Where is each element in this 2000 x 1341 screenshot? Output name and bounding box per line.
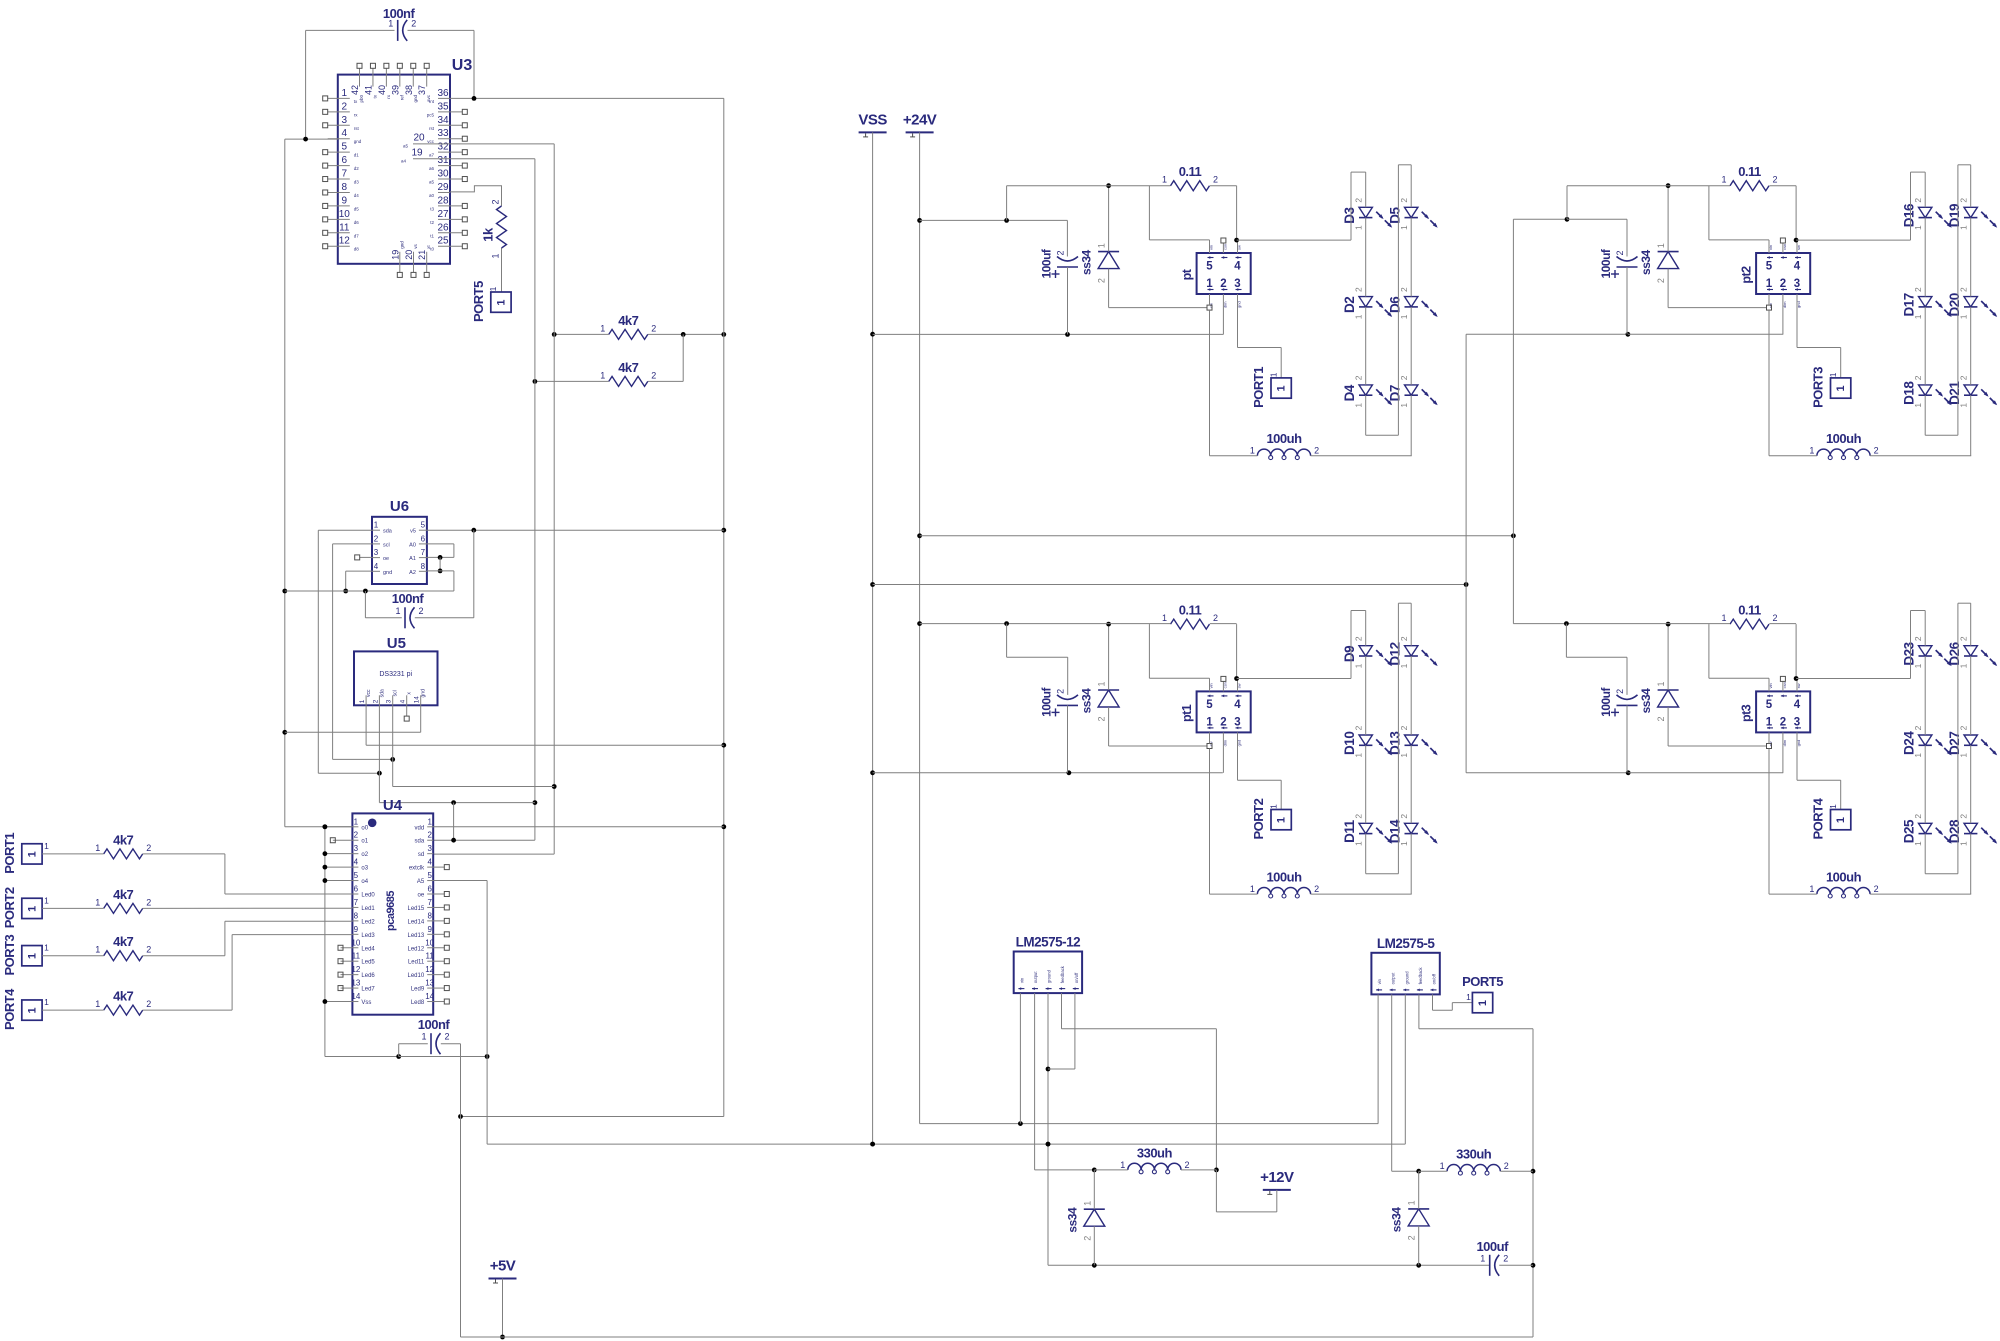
wire pt3 pin3 to PORT4 bbox=[1797, 732, 1841, 809]
svg-text:1k: 1k bbox=[481, 227, 496, 242]
svg-text:9: 9 bbox=[354, 925, 359, 934]
svg-text:1: 1 bbox=[95, 897, 100, 907]
svg-text:1: 1 bbox=[488, 286, 498, 291]
svg-text:2: 2 bbox=[1213, 613, 1218, 623]
svg-text:8: 8 bbox=[354, 911, 359, 920]
wire LM2575-5 feedback to +5 output node bbox=[1419, 994, 1536, 1337]
svg-text:1: 1 bbox=[1269, 372, 1279, 377]
wire ss34-5 connections bbox=[1418, 1171, 1420, 1265]
svg-text:gnd: gnd bbox=[354, 139, 362, 144]
IC pt1 (LED driver) bbox=[1180, 682, 1251, 746]
svg-text:d5: d5 bbox=[354, 206, 360, 211]
svg-text:330uh: 330uh bbox=[1456, 1147, 1492, 1162]
svg-text:DS3231 pi: DS3231 pi bbox=[379, 671, 412, 678]
svg-text:2: 2 bbox=[1913, 725, 1923, 730]
svg-text:1: 1 bbox=[1120, 1160, 1125, 1170]
svg-text:ss34: ss34 bbox=[1639, 249, 1653, 275]
wire pt pin2 to VSS line bbox=[1222, 294, 1224, 334]
svg-text:4: 4 bbox=[1794, 261, 1801, 273]
IC U5 (DS3231 RTC) bbox=[354, 635, 438, 705]
wire pt1 top pin stubs bbox=[1210, 676, 1238, 691]
wire 4k7 pullup B net bbox=[533, 334, 684, 383]
wire sda rail (A4) down to U4 sda bbox=[433, 159, 537, 840]
wire U3 pin36 vdd to +5 rail bbox=[450, 96, 724, 101]
svg-text:2: 2 bbox=[1656, 278, 1666, 283]
svg-text:2: 2 bbox=[1399, 636, 1409, 641]
LED D5 bbox=[1388, 198, 1438, 230]
svg-text:14: 14 bbox=[351, 992, 360, 1001]
svg-text:2: 2 bbox=[1913, 814, 1923, 819]
svg-text:+12V: +12V bbox=[1260, 1169, 1294, 1186]
svg-text:100uh: 100uh bbox=[1826, 431, 1862, 446]
svg-text:1: 1 bbox=[1399, 225, 1409, 230]
svg-text:3: 3 bbox=[342, 115, 348, 126]
svg-text:A0: A0 bbox=[409, 542, 416, 548]
svg-text:32: 32 bbox=[437, 142, 449, 153]
svg-text:1: 1 bbox=[1206, 278, 1213, 290]
wire U6 sda to U5 sda bbox=[318, 530, 382, 775]
svg-text:330uh: 330uh bbox=[1137, 1145, 1173, 1160]
svg-text:scl: scl bbox=[383, 542, 390, 548]
svg-text:1: 1 bbox=[1097, 681, 1107, 686]
svg-text:t1: t1 bbox=[430, 233, 434, 238]
svg-text:1: 1 bbox=[44, 997, 49, 1007]
svg-text:Led9: Led9 bbox=[411, 987, 425, 993]
svg-text:v5: v5 bbox=[410, 529, 416, 535]
svg-text:D18: D18 bbox=[1902, 381, 1917, 405]
wire pt pin5 vin jog bbox=[1149, 186, 1209, 240]
svg-text:Led2: Led2 bbox=[361, 919, 375, 925]
pin U4 Led6 unconnected square bbox=[338, 972, 352, 977]
svg-text:5: 5 bbox=[427, 871, 432, 880]
LED D28 bbox=[1947, 814, 1997, 846]
svg-text:2: 2 bbox=[1056, 689, 1066, 694]
svg-text:6: 6 bbox=[354, 885, 359, 894]
svg-text:4k7: 4k7 bbox=[113, 989, 133, 1004]
svg-text:5: 5 bbox=[1766, 261, 1773, 273]
svg-text:2: 2 bbox=[1354, 375, 1364, 380]
svg-text:PORT5: PORT5 bbox=[1462, 974, 1503, 989]
svg-text:1: 1 bbox=[44, 895, 49, 905]
svg-text:2: 2 bbox=[1874, 446, 1879, 456]
port PORT3 bbox=[2, 934, 49, 975]
svg-text:1: 1 bbox=[1466, 992, 1471, 1002]
pin U4 Led11 unconnected square bbox=[433, 959, 449, 964]
capacitor 100uf (pt2 input) bbox=[1599, 248, 1638, 278]
svg-text:Led12: Led12 bbox=[408, 946, 425, 952]
svg-text:2: 2 bbox=[1220, 716, 1226, 728]
svg-text:D19: D19 bbox=[1947, 204, 1962, 227]
svg-text:10: 10 bbox=[351, 938, 360, 947]
svg-text:1: 1 bbox=[495, 299, 507, 305]
svg-text:D16: D16 bbox=[1902, 203, 1917, 227]
wire pt3 pin2 to VSS line bbox=[1782, 732, 1784, 772]
svg-text:ss34: ss34 bbox=[1639, 688, 1653, 714]
svg-text:ground: ground bbox=[1047, 969, 1052, 983]
svg-text:o0: o0 bbox=[361, 825, 368, 831]
svg-text:oe: oe bbox=[383, 556, 389, 562]
resistor 4k7 (PORT4 series) bbox=[95, 989, 151, 1016]
LED D20 bbox=[1947, 287, 1997, 319]
svg-text:6: 6 bbox=[421, 534, 426, 543]
wire pt top pin stubs bbox=[1210, 238, 1238, 253]
pin U4 Led12 unconnected square bbox=[433, 945, 449, 950]
svg-text:1: 1 bbox=[1399, 403, 1409, 408]
svg-text:A1: A1 bbox=[409, 556, 416, 562]
svg-text:2: 2 bbox=[1184, 1160, 1189, 1170]
wire pt pin3 to PORT1 bbox=[1238, 294, 1282, 378]
svg-text:1: 1 bbox=[26, 906, 38, 912]
svg-text:a5: a5 bbox=[403, 144, 409, 149]
IC U4 (pca9685 LED driver) bbox=[351, 797, 434, 1015]
wire PORT1 to U4 Led0 bbox=[42, 854, 352, 894]
wire pt2 pin1/diode/inductor node bbox=[1668, 269, 1771, 456]
svg-text:4k7: 4k7 bbox=[113, 832, 133, 847]
svg-text:D11: D11 bbox=[1342, 819, 1357, 843]
svg-text:1: 1 bbox=[1721, 175, 1726, 185]
svg-text:pca9685: pca9685 bbox=[385, 891, 397, 931]
svg-text:t2: t2 bbox=[430, 220, 434, 225]
svg-text:0.11: 0.11 bbox=[1179, 603, 1202, 618]
svg-text:output: output bbox=[1033, 971, 1038, 983]
svg-text:1: 1 bbox=[1407, 1200, 1417, 1205]
svg-text:1: 1 bbox=[342, 88, 348, 99]
wire pt3 block top/cap feed bbox=[1513, 621, 1796, 773]
svg-text:14: 14 bbox=[414, 696, 421, 704]
svg-text:1: 1 bbox=[1656, 243, 1666, 248]
svg-text:19: 19 bbox=[411, 148, 423, 159]
svg-text:d6: d6 bbox=[354, 220, 360, 225]
svg-text:2: 2 bbox=[1399, 725, 1409, 730]
svg-text:Led5: Led5 bbox=[361, 960, 375, 966]
svg-text:1: 1 bbox=[1480, 1253, 1485, 1263]
LED D7 bbox=[1388, 375, 1438, 407]
diode ss34 (LM2575-5) bbox=[1390, 1200, 1430, 1240]
wire 100uf to +5 node bbox=[1499, 1264, 1533, 1266]
wire pt2 block top/cap feed bbox=[1567, 186, 1796, 335]
wire pt3 sw node to LED feed bbox=[1794, 624, 1911, 681]
svg-text:d2: d2 bbox=[354, 166, 360, 171]
svg-text:2: 2 bbox=[342, 101, 348, 112]
svg-text:extclk: extclk bbox=[409, 866, 425, 872]
pin U4 Led13 unconnected square bbox=[433, 932, 449, 937]
svg-text:1: 1 bbox=[1828, 804, 1838, 809]
svg-text:20: 20 bbox=[404, 250, 414, 260]
svg-text:1: 1 bbox=[1440, 1161, 1445, 1171]
LED D18 bbox=[1902, 375, 1952, 407]
svg-text:2: 2 bbox=[146, 897, 151, 907]
wire +24V rail vertical and bottom bus bbox=[917, 132, 1378, 1126]
svg-text:13: 13 bbox=[351, 979, 360, 988]
svg-text:9: 9 bbox=[342, 195, 348, 206]
svg-text:1: 1 bbox=[1959, 841, 1969, 846]
wire LM2575-5 ground + VSS bus bbox=[487, 994, 1405, 1146]
capacitor 100uf (pt3 input) bbox=[1599, 686, 1638, 716]
svg-text:1: 1 bbox=[1959, 314, 1969, 319]
svg-text:Led15: Led15 bbox=[408, 906, 425, 912]
svg-text:1: 1 bbox=[491, 253, 501, 258]
svg-text:1: 1 bbox=[1399, 663, 1409, 668]
svg-text:d1: d1 bbox=[354, 153, 360, 158]
svg-text:vin: vin bbox=[1377, 978, 1382, 984]
svg-text:5: 5 bbox=[354, 871, 359, 880]
svg-text:1: 1 bbox=[1206, 716, 1213, 728]
svg-text:vdd: vdd bbox=[415, 825, 425, 831]
svg-text:1: 1 bbox=[1809, 446, 1814, 456]
svg-text:pt: pt bbox=[1180, 268, 1194, 280]
svg-text:D13: D13 bbox=[1388, 731, 1403, 755]
LED D11 bbox=[1342, 814, 1392, 846]
svg-text:pc5: pc5 bbox=[427, 112, 435, 117]
capacitor 100uf (output filter) bbox=[1476, 1239, 1509, 1276]
svg-text:1: 1 bbox=[1250, 884, 1255, 894]
svg-text:33: 33 bbox=[437, 128, 449, 139]
svg-text:5: 5 bbox=[342, 142, 348, 153]
svg-text:U6: U6 bbox=[390, 498, 409, 515]
svg-text:1: 1 bbox=[374, 521, 379, 530]
port PORT2 bbox=[2, 887, 49, 928]
svg-text:1: 1 bbox=[1913, 403, 1923, 408]
svg-text:gnd: gnd bbox=[399, 241, 404, 249]
svg-text:D20: D20 bbox=[1947, 293, 1962, 316]
resistor 0.11 (pt1 sense) bbox=[1162, 603, 1218, 630]
svg-text:25: 25 bbox=[437, 236, 449, 247]
wire 330uh-5 leads bbox=[1419, 1170, 1533, 1172]
port PORT3 bbox=[1811, 367, 1851, 408]
wire pt3 LED string bbox=[1911, 603, 1971, 894]
svg-text:PORT1: PORT1 bbox=[2, 833, 17, 874]
svg-text:0.11: 0.11 bbox=[1738, 603, 1761, 618]
svg-text:2: 2 bbox=[1780, 716, 1786, 728]
LED D9 bbox=[1342, 636, 1392, 668]
svg-text:3: 3 bbox=[1234, 716, 1240, 728]
svg-text:2: 2 bbox=[1874, 884, 1879, 894]
svg-text:36: 36 bbox=[437, 88, 449, 99]
svg-text:t3: t3 bbox=[430, 206, 434, 211]
svg-text:D14: D14 bbox=[1388, 819, 1403, 843]
svg-text:37: 37 bbox=[417, 85, 427, 95]
wire U5 sda to sda rail bbox=[379, 705, 535, 842]
svg-text:sda: sda bbox=[383, 529, 393, 535]
svg-text:1: 1 bbox=[95, 945, 100, 955]
wire LM2575-12 ground/onoff + VSS diode bus bbox=[1046, 993, 1489, 1268]
svg-text:10: 10 bbox=[339, 209, 351, 220]
inductor 100uh (pt1) bbox=[1250, 870, 1319, 898]
wire pt1 pin2 to VSS line bbox=[1222, 732, 1224, 772]
svg-text:PORT3: PORT3 bbox=[2, 934, 17, 975]
svg-text:1: 1 bbox=[1269, 804, 1279, 809]
svg-text:1: 1 bbox=[1082, 1201, 1092, 1206]
svg-text:LM2575-12: LM2575-12 bbox=[1016, 935, 1081, 950]
svg-text:2: 2 bbox=[1082, 1236, 1092, 1241]
svg-text:Led13: Led13 bbox=[408, 933, 425, 939]
wire U6 gnd to gnd bus bbox=[285, 571, 454, 593]
svg-text:1: 1 bbox=[1913, 663, 1923, 668]
pin U4 Led14 unconnected square bbox=[433, 918, 449, 923]
svg-text:11: 11 bbox=[426, 952, 435, 961]
wire pt diode cathode to top line bbox=[1106, 183, 1111, 251]
svg-text:1: 1 bbox=[1162, 613, 1167, 623]
inductor 330uh (LM2575-5) bbox=[1440, 1147, 1509, 1175]
svg-text:20: 20 bbox=[413, 133, 425, 144]
svg-text:2: 2 bbox=[1780, 278, 1786, 290]
svg-text:2: 2 bbox=[1772, 175, 1777, 185]
svg-text:42: 42 bbox=[350, 85, 360, 95]
svg-text:2: 2 bbox=[1399, 375, 1409, 380]
LED D13 bbox=[1388, 725, 1438, 757]
svg-text:A2: A2 bbox=[409, 570, 416, 576]
IC LM2575-12 (12V regulator) bbox=[1014, 935, 1082, 994]
svg-text:1: 1 bbox=[1766, 278, 1773, 290]
svg-text:1: 1 bbox=[1913, 225, 1923, 230]
svg-text:2: 2 bbox=[1913, 636, 1923, 641]
svg-text:1: 1 bbox=[1354, 403, 1364, 408]
svg-text:2: 2 bbox=[1354, 814, 1364, 819]
LED D16 bbox=[1902, 198, 1952, 230]
LED D26 bbox=[1947, 636, 1997, 668]
svg-text:ss34: ss34 bbox=[1390, 1207, 1404, 1233]
svg-text:Led8: Led8 bbox=[411, 1000, 425, 1006]
svg-text:6: 6 bbox=[427, 885, 432, 894]
svg-text:Led11: Led11 bbox=[408, 960, 425, 966]
port PORT4 bbox=[1811, 797, 1851, 839]
svg-text:2: 2 bbox=[1314, 884, 1319, 894]
svg-text:2: 2 bbox=[491, 199, 501, 204]
pin U4 Led5 unconnected square bbox=[338, 959, 352, 964]
port PORT1 bbox=[2, 833, 49, 874]
svg-text:2: 2 bbox=[1656, 716, 1666, 721]
svg-text:1: 1 bbox=[95, 999, 100, 1009]
resistor 4k7 (scl pullup) bbox=[600, 313, 656, 340]
LED D21 bbox=[1947, 375, 1997, 407]
wire pt1 inductor leads bbox=[1210, 893, 1412, 895]
svg-text:D28: D28 bbox=[1947, 819, 1962, 843]
svg-text:D4: D4 bbox=[1342, 384, 1357, 401]
svg-text:2: 2 bbox=[1959, 725, 1969, 730]
wire pt2 sw node to LED feed bbox=[1794, 186, 1911, 243]
svg-text:1: 1 bbox=[1399, 753, 1409, 758]
svg-text:1: 1 bbox=[1354, 225, 1364, 230]
svg-text:4: 4 bbox=[354, 858, 359, 867]
svg-text:3: 3 bbox=[386, 699, 393, 703]
svg-text:2: 2 bbox=[1213, 175, 1218, 185]
svg-text:1: 1 bbox=[1656, 681, 1666, 686]
svg-text:d4: d4 bbox=[354, 193, 360, 198]
wire pt1 LED string bbox=[1351, 603, 1411, 894]
wire 100nf U4 cap to gnd bus and +5 bus bbox=[399, 1044, 461, 1337]
svg-text:1: 1 bbox=[395, 606, 400, 616]
LED D6 bbox=[1388, 287, 1438, 319]
svg-text:D21: D21 bbox=[1947, 381, 1962, 405]
svg-text:2: 2 bbox=[1220, 278, 1226, 290]
svg-text:4: 4 bbox=[400, 699, 407, 703]
wire U6 v5 to +5 rail bbox=[427, 528, 724, 533]
inductor 330uh (LM2575-12) bbox=[1120, 1145, 1189, 1173]
svg-text:0.11: 0.11 bbox=[1738, 164, 1761, 179]
svg-text:2: 2 bbox=[372, 699, 379, 703]
wire +5V bus bottom bbox=[461, 1279, 1534, 1340]
resistor 4k7 (sda pullup) bbox=[600, 360, 656, 387]
svg-text:U4: U4 bbox=[383, 797, 403, 814]
svg-text:100nf: 100nf bbox=[383, 6, 416, 21]
svg-text:2: 2 bbox=[1959, 636, 1969, 641]
svg-text:2: 2 bbox=[1399, 287, 1409, 292]
svg-text:11: 11 bbox=[352, 952, 361, 961]
svg-text:+5V: +5V bbox=[490, 1258, 516, 1275]
svg-text:+24V: +24V bbox=[903, 111, 937, 128]
svg-text:x: x bbox=[407, 692, 413, 695]
capacitor 100nf (U6 decoupling) bbox=[392, 591, 425, 628]
IC U3 (44-pin MCU) bbox=[323, 57, 473, 277]
pin U4 Led15 unconnected square bbox=[433, 905, 449, 910]
svg-text:feedback: feedback bbox=[1060, 965, 1065, 983]
svg-text:8: 8 bbox=[427, 911, 432, 920]
svg-text:oe: oe bbox=[418, 893, 425, 899]
svg-text:3: 3 bbox=[1794, 278, 1800, 290]
svg-text:2: 2 bbox=[1354, 725, 1364, 730]
svg-text:PORT4: PORT4 bbox=[2, 988, 17, 1030]
wire U6 A0/A1/A2 tie to gnd bbox=[427, 544, 454, 591]
svg-text:14: 14 bbox=[425, 992, 434, 1001]
svg-text:2: 2 bbox=[1913, 287, 1923, 292]
svg-text:7: 7 bbox=[421, 548, 426, 557]
svg-text:on/off: on/off bbox=[1432, 973, 1437, 984]
svg-text:7: 7 bbox=[342, 169, 348, 180]
svg-text:2: 2 bbox=[1097, 278, 1107, 283]
svg-text:1: 1 bbox=[1276, 817, 1288, 823]
svg-text:D5: D5 bbox=[1388, 206, 1403, 223]
svg-text:pt2: pt2 bbox=[1740, 266, 1754, 284]
svg-text:d3: d3 bbox=[354, 180, 360, 185]
svg-text:on/off: on/off bbox=[1074, 972, 1079, 983]
svg-text:100nf: 100nf bbox=[418, 1017, 451, 1032]
svg-text:2: 2 bbox=[651, 370, 656, 380]
svg-text:1: 1 bbox=[95, 843, 100, 853]
wire VSS rail vertical bbox=[870, 132, 875, 1146]
svg-text:a0: a0 bbox=[429, 193, 435, 198]
svg-text:1: 1 bbox=[1766, 716, 1773, 728]
svg-text:4: 4 bbox=[1234, 699, 1241, 711]
LED D2 bbox=[1342, 287, 1392, 319]
svg-text:29: 29 bbox=[437, 182, 449, 193]
wire pt3 diode cathode to top line bbox=[1666, 622, 1671, 690]
svg-text:D3: D3 bbox=[1342, 206, 1357, 223]
svg-text:Led6: Led6 bbox=[361, 973, 375, 979]
wire PORT2 to U4 Led1 bbox=[42, 907, 352, 909]
wire 330uh-12 leads bbox=[1094, 1169, 1216, 1171]
wire U3 pin4 gnd left + junction bbox=[285, 137, 338, 142]
svg-text:1: 1 bbox=[1959, 663, 1969, 668]
svg-text:a6: a6 bbox=[429, 166, 435, 171]
svg-text:2: 2 bbox=[1354, 198, 1364, 203]
svg-text:1: 1 bbox=[1721, 613, 1726, 623]
wire +24 feed row1 left bbox=[920, 218, 1068, 223]
svg-text:2: 2 bbox=[1959, 198, 1969, 203]
svg-text:1: 1 bbox=[1354, 314, 1364, 319]
svg-text:4k7: 4k7 bbox=[113, 934, 133, 949]
svg-text:1: 1 bbox=[1354, 663, 1364, 668]
svg-text:D17: D17 bbox=[1902, 293, 1917, 316]
wire pt1 block top/cap feed bbox=[920, 621, 1237, 773]
wire +12V symbol to output node bbox=[1216, 1170, 1276, 1212]
svg-text:Led3: Led3 bbox=[361, 933, 375, 939]
capacitor 100uf (pt input) bbox=[1040, 248, 1079, 278]
svg-text:2: 2 bbox=[1354, 287, 1364, 292]
svg-text:Led14: Led14 bbox=[408, 919, 425, 925]
svg-text:2: 2 bbox=[1959, 287, 1969, 292]
wire LM2575-5 output bbox=[1392, 994, 1421, 1173]
svg-text:2: 2 bbox=[444, 1032, 449, 1042]
